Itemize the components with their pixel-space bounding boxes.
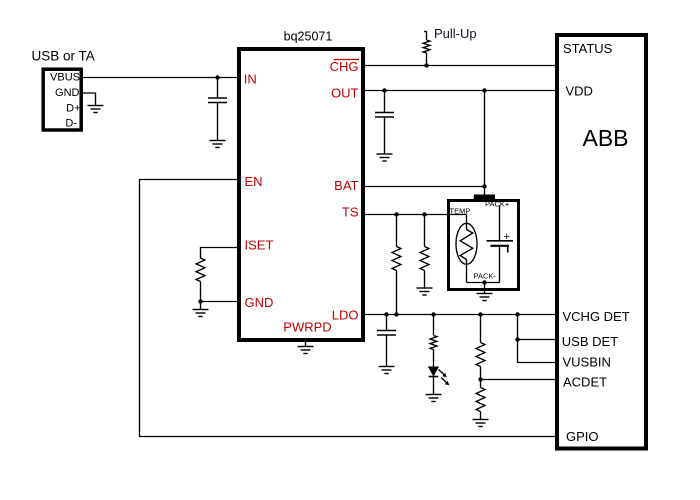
svg-text:bq25071: bq25071 — [284, 30, 333, 44]
node detect branch junction — [515, 312, 519, 316]
wire LDO to VCHG DET — [363, 314, 557, 316]
node divider junction — [478, 312, 482, 316]
node BAT junction — [482, 184, 486, 188]
IC U1 bq25071 — [239, 30, 363, 341]
ground USB GND — [88, 106, 104, 113]
ground divider — [473, 420, 489, 427]
node ISET GND junction — [198, 299, 202, 303]
wire PWRPD ground stub — [305, 342, 307, 347]
resistor R TS-GND — [420, 215, 429, 289]
svg-text:PACK+: PACK+ — [485, 200, 510, 209]
svg-text:D-: D- — [65, 118, 77, 130]
ground LDO cap — [379, 367, 395, 374]
wire VBUS to IN — [83, 77, 239, 79]
ground input cap — [210, 141, 226, 148]
svg-text:CHG: CHG — [330, 59, 359, 74]
svg-text:USB or TA: USB or TA — [32, 49, 95, 64]
node USB DET junction — [515, 337, 519, 341]
wire TS — [363, 215, 467, 224]
svg-text:OUT: OUT — [331, 86, 359, 101]
wire PACK- to ground — [484, 283, 486, 294]
svg-text:IN: IN — [244, 72, 257, 87]
capacitor C1 input — [208, 78, 227, 141]
ground ISET — [193, 310, 209, 317]
ground output cap — [377, 154, 393, 161]
node TS resistor A junction — [394, 212, 398, 216]
wire PACK- — [467, 282, 500, 284]
svg-text:+: + — [504, 231, 510, 243]
node input cap junction — [215, 75, 219, 79]
wire OUT to VDD — [363, 90, 557, 92]
resistor R LED series — [430, 315, 437, 368]
svg-text:D+: D+ — [66, 103, 80, 115]
capacitor C3 LDO — [377, 315, 396, 367]
resistor R pull-up — [423, 31, 430, 66]
ground PWRPD — [298, 347, 314, 354]
svg-text:BAT: BAT — [334, 178, 358, 193]
node LED branch junction — [431, 312, 435, 316]
wire ACDET — [481, 379, 558, 381]
svg-text:GND: GND — [245, 295, 274, 310]
diode D1 LED — [429, 367, 450, 395]
resistor R divider bottom — [476, 380, 485, 420]
battery cell BT1 — [487, 206, 514, 283]
resistor R ISET — [196, 258, 205, 282]
wire USB DET — [518, 339, 558, 341]
svg-text:VUSBIN: VUSBIN — [563, 355, 611, 370]
wire BAT — [363, 186, 485, 188]
wire USB GND pin — [83, 93, 96, 106]
wire detect vertical — [518, 315, 558, 363]
wire junction to ground — [200, 302, 202, 310]
wire ISET pin — [201, 248, 240, 259]
svg-text:PWRPD: PWRPD — [283, 320, 331, 335]
ground PACK- — [477, 294, 493, 301]
wire EN to GPIO loop — [140, 180, 558, 437]
svg-text:VCHG DET: VCHG DET — [563, 309, 630, 324]
node pull-up junction — [424, 63, 428, 67]
pin CHG active-low — [330, 59, 359, 74]
resistor R divider top — [476, 315, 485, 380]
wire CHG to STATUS — [363, 65, 557, 67]
svg-text:GPIO: GPIO — [566, 429, 599, 444]
battery pack box — [449, 195, 519, 290]
ground TS resistor — [417, 288, 433, 295]
svg-text:GND: GND — [55, 87, 80, 99]
svg-text:Pull-Up: Pull-Up — [434, 26, 477, 41]
thermistor RT1 — [456, 223, 477, 282]
svg-text:LDO: LDO — [332, 308, 359, 323]
node TS resistor bottom junction — [394, 312, 398, 316]
svg-text:VDD: VDD — [566, 84, 593, 99]
resistor R TS-LDO — [392, 215, 401, 315]
node ACDET junction — [478, 377, 482, 381]
svg-text:ACDET: ACDET — [563, 375, 607, 390]
IC U2 ABB host — [557, 35, 646, 449]
node output cap junction — [382, 88, 386, 92]
node TS resistor B junction — [422, 212, 426, 216]
node battery feed junction — [482, 88, 486, 92]
svg-text:EN: EN — [245, 174, 263, 189]
wire battery feed vertical — [484, 91, 486, 197]
node PACK- junction — [482, 280, 486, 284]
svg-text:VBUS: VBUS — [50, 72, 80, 84]
connector J1 USB or TA — [32, 49, 95, 131]
svg-text:TEMP: TEMP — [450, 207, 471, 216]
node LDO cap junction — [384, 312, 388, 316]
ground LED — [426, 395, 442, 402]
wire GND pin — [201, 301, 240, 303]
svg-text:PACK-: PACK- — [474, 272, 497, 281]
svg-text:ABB: ABB — [582, 125, 628, 151]
svg-text:STATUS: STATUS — [563, 41, 613, 56]
svg-text:USB DET: USB DET — [562, 334, 618, 349]
svg-text:TS: TS — [342, 205, 359, 220]
capacitor C2 output — [375, 91, 394, 155]
svg-text:ISET: ISET — [245, 238, 274, 253]
